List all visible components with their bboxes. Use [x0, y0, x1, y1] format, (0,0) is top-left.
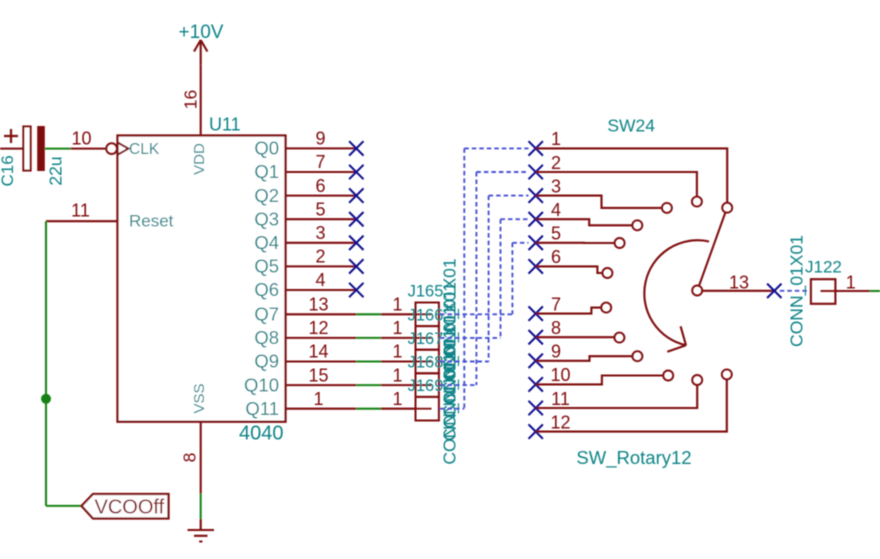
no-connect X on SW24 pin 4: [529, 212, 543, 226]
svg-text:5: 5: [315, 199, 325, 219]
SW24 wiper lever: [699, 212, 725, 286]
no-connect X on SW24 pin 7: [529, 306, 543, 320]
SW24 pin 9 line: [536, 356, 633, 361]
op-amp U11 body (4040 counter): [118, 136, 286, 422]
SW24 contact 9: [632, 351, 642, 361]
svg-text:1: 1: [392, 318, 402, 338]
pin 6 (Q2): [286, 195, 357, 197]
svg-text:J122: J122: [805, 258, 842, 277]
svg-text:Q10: Q10: [244, 374, 279, 395]
pin 3 (Q4): [286, 242, 357, 244]
pin 16 (VDD): [200, 65, 202, 136]
svg-text:VSS: VSS: [191, 383, 208, 413]
dashed line horizontal to SW pin 4: [501, 218, 529, 220]
svg-text:7: 7: [315, 152, 325, 172]
wire Q7 to J165 (green): [356, 313, 381, 315]
dashed line vertical (SW pin 4 to J166): [500, 219, 502, 338]
wire Q11 to J169 (green): [356, 408, 381, 410]
connector J165 body: [416, 303, 439, 327]
dashed line to J122: [780, 290, 809, 292]
SW24 contact 2: [692, 197, 702, 207]
dashed line horizontal from J169: [440, 408, 464, 410]
wire into C16 left plate: [0, 148, 23, 150]
pin 4 (Q6): [286, 289, 357, 291]
wire C16 to CLK (green): [45, 148, 71, 150]
svg-text:3: 3: [315, 223, 325, 243]
svg-text:Q11: Q11: [245, 398, 279, 419]
pin 1 of J167: [381, 360, 416, 362]
connector J165 internal pin line: [417, 313, 432, 315]
pin 10 line to CLK: [71, 148, 106, 150]
CLK clock triangle: [118, 142, 129, 154]
svg-text:14: 14: [308, 342, 328, 362]
dashed line vertical (SW pin 5 to J165): [511, 243, 513, 314]
pin 1 of J166: [381, 337, 416, 339]
global label VCOOff: [82, 494, 169, 519]
no-connect X on Q3: [349, 212, 363, 226]
SW24 contact 7: [601, 303, 611, 313]
svg-text:9: 9: [551, 342, 561, 362]
connector J122 body: [811, 279, 836, 304]
svg-text:J169: J169: [408, 377, 444, 395]
svg-text:CLK: CLK: [129, 141, 160, 158]
connector J169 internal pin line: [417, 408, 432, 410]
svg-text:2: 2: [315, 247, 325, 267]
pin 1 (Q11): [286, 408, 357, 410]
connector J166 internal pin line: [417, 337, 432, 339]
dashed line horizontal from J166: [440, 337, 501, 339]
svg-text:10: 10: [71, 128, 91, 148]
pin 8 (VSS): [200, 422, 202, 494]
svg-text:8: 8: [180, 453, 200, 463]
no-connect X on SW24 pin 10: [529, 377, 543, 391]
rotation arc arrow: [644, 240, 709, 352]
no-connect X on SW24 pin 2: [529, 165, 543, 179]
svg-text:4: 4: [551, 200, 561, 220]
no-connect X on SW24 pin 6: [529, 259, 543, 273]
svg-text:1: 1: [392, 365, 402, 385]
pin 14 (Q9): [286, 360, 357, 362]
capacitor C16 right plate (filled): [37, 126, 45, 171]
dashed line horizontal to SW pin 2: [476, 171, 528, 173]
svg-text:10: 10: [550, 365, 570, 385]
dashed line horizontal from J168: [440, 384, 476, 386]
dashed line vertical (SW pin 3 to J167): [488, 196, 490, 362]
svg-text:5: 5: [551, 224, 561, 244]
SW24 contact 1: [722, 203, 732, 213]
pin 12 (Q8): [286, 337, 357, 339]
svg-text:SW_Rotary12: SW_Rotary12: [576, 447, 691, 469]
svg-text:CONN_01X01: CONN_01X01: [787, 235, 808, 347]
wire Q8 to J166 (green): [356, 337, 381, 339]
SW24 contact 12: [722, 369, 732, 379]
svg-text:+10V: +10V: [179, 22, 224, 43]
pin 5 (Q3): [286, 218, 357, 220]
SW24 contact 10: [663, 371, 673, 381]
svg-text:15: 15: [308, 365, 328, 385]
no-connect X on SW24 pin 11: [529, 401, 543, 415]
svg-text:1: 1: [392, 295, 402, 315]
svg-text:Q1: Q1: [254, 161, 279, 182]
SW24 contact 4: [632, 220, 642, 230]
svg-text:22u: 22u: [46, 156, 66, 185]
svg-text:6: 6: [551, 247, 561, 267]
svg-text:11: 11: [71, 200, 90, 220]
no-connect X on SW24 pin 3: [529, 188, 543, 202]
dashed line vertical (SW pin 1 to J169): [463, 148, 465, 408]
pin 2 (Q5): [286, 265, 357, 267]
dashed line vertical (SW pin 2 to J168): [475, 172, 477, 385]
no-connect X on Q4: [349, 236, 363, 250]
connector J168 body: [416, 373, 439, 397]
SW24 contact 5: [615, 238, 625, 248]
svg-text:13: 13: [308, 295, 328, 315]
connector J166 body: [416, 326, 439, 350]
svg-text:Q7: Q7: [254, 304, 279, 325]
pin 1 of J168: [381, 384, 416, 386]
SW24 pin 11 line: [536, 385, 698, 408]
wire Reset down (green): [45, 221, 47, 506]
svg-text:Q9: Q9: [254, 351, 279, 372]
svg-text:11: 11: [551, 389, 570, 409]
connector J168 internal pin line: [417, 384, 432, 386]
svg-text:4: 4: [315, 270, 325, 290]
SW24 contact 3: [662, 203, 672, 213]
svg-text:Q3: Q3: [254, 208, 279, 229]
svg-text:VCOOff: VCOOff: [95, 497, 165, 519]
no-connect X on Q2: [349, 188, 363, 202]
dashed line horizontal to SW pin 3: [489, 195, 529, 197]
svg-text:J167: J167: [408, 330, 444, 348]
svg-text:1: 1: [551, 129, 561, 149]
connector J167 body: [416, 350, 439, 374]
pin 1 of J122: [835, 290, 870, 292]
svg-text:3: 3: [551, 176, 561, 196]
svg-text:1: 1: [313, 389, 323, 409]
svg-text:2: 2: [551, 153, 561, 173]
svg-text:C16: C16: [0, 155, 17, 186]
SW24 pin 12 line: [536, 379, 727, 431]
svg-text:Q6: Q6: [254, 279, 279, 300]
pin 7 (Q1): [286, 171, 357, 173]
SW24 pin 1 line: [536, 148, 728, 202]
SW24 pin 10 line: [536, 376, 664, 385]
svg-text:6: 6: [315, 176, 325, 196]
svg-text:13: 13: [729, 272, 749, 292]
no-connect X on SW24 pin 13: [767, 284, 781, 298]
svg-text:Q0: Q0: [254, 138, 279, 159]
dashed line horizontal to SW pin 5: [512, 242, 528, 244]
dashed line horizontal from J167: [440, 361, 489, 363]
CLK inversion bubble: [106, 143, 117, 154]
svg-text:Q8: Q8: [254, 327, 279, 348]
capacitor C16 plus sign: [4, 129, 18, 143]
dashed line horizontal from J165: [440, 313, 512, 315]
no-connect X on Q1: [349, 165, 363, 179]
svg-text:12: 12: [308, 318, 328, 338]
pin 1 of J165: [381, 313, 416, 315]
SW24 pin 13 line: [702, 290, 774, 292]
no-connect X on Q5: [349, 259, 363, 273]
svg-text:SW24: SW24: [607, 116, 655, 136]
wire from J122 (green): [870, 290, 880, 292]
svg-text:J168: J168: [408, 354, 444, 372]
SW24 pin 7 line: [536, 308, 602, 314]
svg-text:4040: 4040: [239, 423, 284, 445]
wire Q9 to J167 (green): [356, 360, 381, 362]
pin 11 (Reset): [46, 220, 118, 222]
svg-text:J166: J166: [408, 306, 444, 324]
ground symbol: [188, 519, 215, 542]
svg-text:Reset: Reset: [129, 212, 174, 231]
connector J122 internal pin line: [821, 290, 836, 292]
SW24 pin 8 line: [536, 336, 615, 338]
dashed line horizontal to SW pin 1: [464, 147, 528, 149]
wire VSS to ground (green): [200, 494, 202, 519]
no-connect X on SW24 pin 5: [529, 236, 543, 250]
power symbol +10V: [194, 40, 207, 65]
SW24 pin 2 line: [536, 172, 697, 197]
junction: [41, 394, 51, 404]
SW24 common pole circle: [692, 286, 702, 296]
no-connect X on Q6: [349, 283, 363, 297]
svg-text:J165: J165: [408, 283, 444, 301]
wire to VCOOff label (green): [46, 505, 82, 507]
capacitor C16 left plate: [23, 127, 30, 171]
pin 9 (Q0): [286, 147, 357, 149]
pin 15 (Q10): [286, 384, 357, 386]
wire Q10 to J168 (green): [356, 384, 381, 386]
SW24 pin 5 line: [536, 242, 615, 244]
connector J169 body: [416, 397, 439, 421]
svg-text:1: 1: [846, 272, 856, 292]
SW24 pin 6 line: [536, 266, 603, 273]
svg-text:1: 1: [392, 389, 402, 409]
no-connect X on SW24 pin 8: [529, 330, 543, 344]
SW24 pin 4 line: [536, 219, 633, 225]
pin 1 of J169: [381, 408, 416, 410]
SW24 contact 11: [692, 375, 702, 385]
svg-text:Q2: Q2: [254, 185, 279, 206]
svg-text:VDD: VDD: [191, 143, 208, 175]
no-connect X on SW24 pin 12: [529, 424, 543, 438]
SW24 contact 6: [602, 268, 612, 278]
svg-text:Q5: Q5: [254, 256, 279, 277]
SW24 pin 3 line: [536, 196, 662, 208]
svg-text:1: 1: [392, 342, 402, 362]
svg-text:U11: U11: [209, 115, 241, 135]
no-connect X on SW24 pin 9: [529, 354, 543, 368]
no-connect X on SW24 pin 1: [529, 141, 543, 155]
svg-text:16: 16: [181, 90, 201, 109]
svg-text:12: 12: [550, 412, 570, 432]
svg-text:8: 8: [551, 318, 561, 338]
connector J167 internal pin line: [417, 361, 432, 363]
svg-text:9: 9: [315, 129, 325, 149]
no-connect X on Q0: [349, 141, 363, 155]
svg-text:Q4: Q4: [254, 232, 279, 253]
SW24 contact 8: [614, 333, 624, 343]
svg-text:7: 7: [551, 294, 561, 314]
pin 13 (Q7): [286, 313, 357, 315]
